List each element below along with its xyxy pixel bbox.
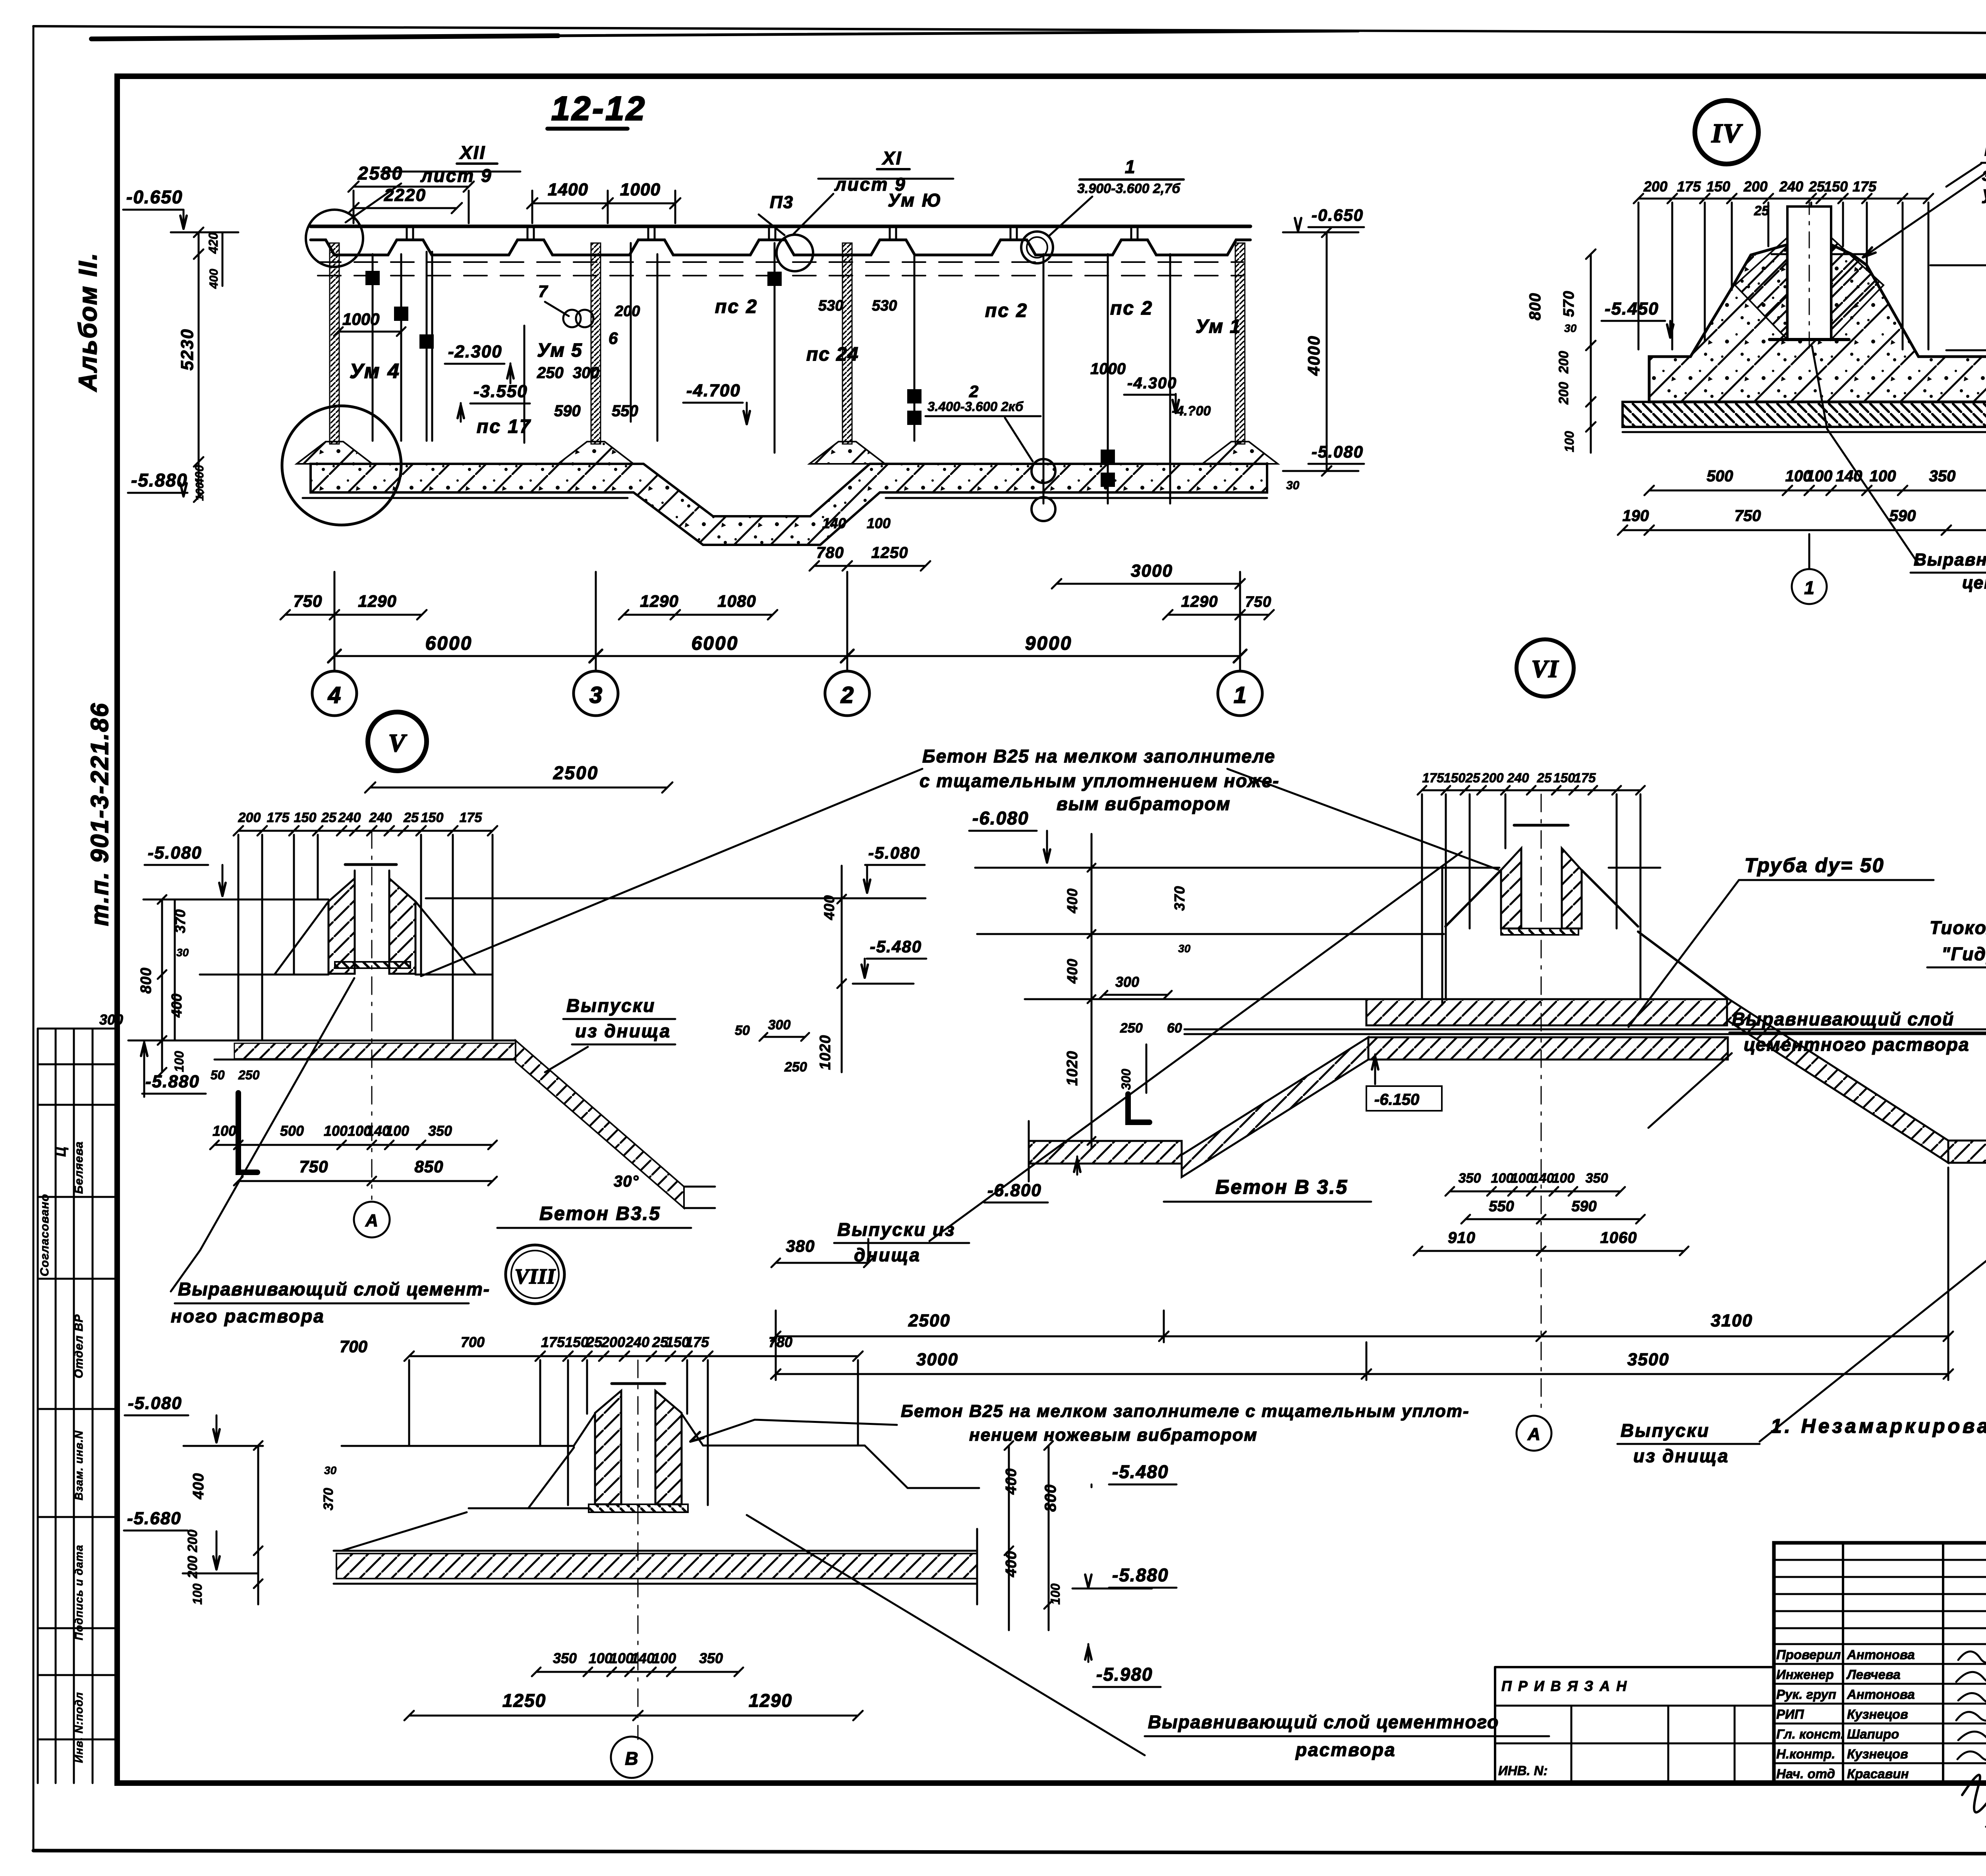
svg-text:-5.080: -5.080 [128, 1393, 182, 1413]
svg-text:300: 300 [99, 1011, 123, 1028]
svg-text:780: 780 [769, 1334, 792, 1350]
svg-text:-0.650: -0.650 [126, 187, 183, 207]
svg-text:150: 150 [1443, 770, 1466, 785]
svg-text:из днища: из днища [575, 1021, 671, 1041]
svg-text:350: 350 [553, 1650, 577, 1666]
svg-text:-6.080: -6.080 [972, 808, 1029, 828]
svg-text:550: 550 [1489, 1198, 1514, 1215]
svg-text:1250: 1250 [502, 1690, 546, 1711]
svg-text:100: 100 [213, 1123, 236, 1139]
svg-text:Красавин: Красавин [1847, 1766, 1909, 1781]
svg-text:-5.680: -5.680 [127, 1509, 182, 1528]
svg-text:уплотнением ножевым вибрато: уплотнением ножевым вибратором. [1982, 183, 1986, 203]
svg-text:25: 25 [586, 1334, 603, 1350]
svg-text:1400: 1400 [548, 180, 588, 199]
svg-text:6000: 6000 [425, 633, 473, 654]
svg-text:50: 50 [735, 1023, 750, 1038]
svg-text:пс 2: пс 2 [715, 296, 758, 317]
svg-text:175: 175 [1574, 770, 1596, 785]
svg-text:370: 370 [321, 1488, 336, 1511]
svg-text:1080: 1080 [717, 592, 756, 610]
svg-text:400: 400 [168, 994, 185, 1018]
svg-text:100: 100 [172, 1051, 186, 1072]
svg-text:60: 60 [1167, 1021, 1182, 1036]
svg-text:100: 100 [1552, 1171, 1575, 1186]
svg-text:175: 175 [685, 1334, 709, 1350]
svg-text:175: 175 [1677, 178, 1701, 195]
svg-text:25: 25 [1808, 178, 1825, 195]
svg-text:500: 500 [1707, 467, 1733, 485]
svg-text:ИНВ. N:: ИНВ. N: [1498, 1763, 1548, 1778]
svg-text:175: 175 [1853, 178, 1877, 195]
svg-text:-5.880: -5.880 [1112, 1565, 1169, 1585]
svg-text:Альбом II.: Альбом II. [73, 252, 102, 392]
svg-text:А: А [1527, 1424, 1540, 1444]
svg-text:25: 25 [1754, 203, 1770, 218]
svg-text:Бетон В25 на мелком: Бетон В25 на мелком [1984, 139, 1986, 160]
svg-text:раствора: раствора [1295, 1739, 1396, 1760]
svg-text:200: 200 [1743, 178, 1768, 195]
svg-text:Антонова: Антонова [1847, 1647, 1915, 1662]
svg-text:2500: 2500 [553, 762, 599, 783]
svg-text:6: 6 [609, 329, 618, 347]
svg-text:Согласовано: Согласовано [38, 1194, 51, 1276]
svg-text:Выравнивающий слой цементног: Выравнивающий слой цементного [1148, 1712, 1499, 1732]
svg-text:590: 590 [1889, 507, 1916, 525]
svg-text:1: 1 [1234, 682, 1246, 708]
svg-text:Выравнивающий слой: Выравнивающий слой [1914, 550, 1986, 569]
svg-text:9000: 9000 [1025, 633, 1072, 654]
svg-text:2220: 2220 [384, 185, 426, 205]
svg-text:Рук. груп: Рук. груп [1776, 1687, 1836, 1702]
svg-text:3000: 3000 [1131, 561, 1173, 581]
svg-text:3: 3 [589, 682, 602, 708]
svg-text:100: 100 [193, 482, 206, 501]
svg-text:750: 750 [1245, 594, 1271, 610]
svg-text:200: 200 [601, 1334, 625, 1350]
svg-text:1250: 1250 [871, 544, 908, 562]
svg-text:Выравнивающий слой: Выравнивающий слой [1732, 1009, 1954, 1029]
svg-text:100: 100 [1491, 1171, 1514, 1186]
svg-text:Гл. конст.: Гл. конст. [1776, 1727, 1844, 1741]
svg-text:Нач. отд: Нач. отд [1776, 1766, 1835, 1781]
svg-text:IV: IV [1711, 118, 1743, 148]
svg-text:240: 240 [1507, 770, 1529, 785]
svg-text:Ум 5: Ум 5 [537, 340, 583, 361]
svg-text:100: 100 [1806, 467, 1833, 485]
svg-text:заполнителе с тщательным: заполнителе с тщательным [1982, 164, 1986, 185]
svg-text:Труба dу= 50: Труба dу= 50 [1745, 854, 1885, 876]
svg-text:1290: 1290 [1181, 593, 1218, 610]
svg-text:300: 300 [573, 364, 599, 382]
svg-text:6000: 6000 [692, 633, 739, 654]
svg-text:200: 200 [185, 1530, 200, 1553]
svg-text:25: 25 [1465, 770, 1480, 785]
svg-text:Ум 4: Ум 4 [350, 360, 400, 383]
svg-text:Ум 1: Ум 1 [1196, 316, 1241, 337]
svg-text:530: 530 [872, 297, 897, 314]
svg-text:30: 30 [1564, 322, 1577, 334]
svg-text:Кузнецов: Кузнецов [1847, 1707, 1908, 1722]
svg-text:750: 750 [1735, 507, 1761, 525]
svg-text:240: 240 [625, 1334, 649, 1350]
svg-text:Кузнецов: Кузнецов [1847, 1747, 1908, 1761]
svg-text:570: 570 [1561, 291, 1577, 317]
svg-text:1290: 1290 [749, 1690, 792, 1711]
svg-text:3100: 3100 [1711, 1311, 1753, 1330]
svg-text:Бетон В 3.5: Бетон В 3.5 [1215, 1176, 1348, 1198]
svg-text:100: 100 [867, 515, 891, 531]
svg-text:т.п. 901-3-221.86: т.п. 901-3-221.86 [86, 702, 114, 926]
svg-text:780: 780 [816, 544, 844, 562]
svg-text:100: 100 [1870, 467, 1896, 485]
svg-text:100: 100 [610, 1650, 634, 1666]
svg-text:-5.080: -5.080 [868, 843, 920, 862]
svg-text:590: 590 [1571, 1198, 1596, 1215]
svg-text:140: 140 [631, 1650, 655, 1666]
svg-text:100: 100 [1048, 1583, 1063, 1605]
svg-text:240: 240 [338, 810, 361, 825]
svg-text:250: 250 [1120, 1021, 1143, 1036]
svg-text:1: 1 [1804, 577, 1814, 598]
svg-text:Отдел ВР: Отдел ВР [72, 1314, 85, 1378]
svg-text:1000: 1000 [1090, 360, 1126, 378]
svg-text:370: 370 [1171, 886, 1188, 911]
svg-text:400: 400 [190, 1473, 207, 1500]
svg-text:200: 200 [1556, 351, 1571, 374]
svg-text:с тщательным уплотнением но: с тщательным уплотнением ноже- [920, 770, 1280, 791]
svg-text:ного раствора: ного раствора [171, 1306, 325, 1326]
svg-text:Шапиро: Шапиро [1847, 1727, 1899, 1741]
svg-text:Ц: Ц [54, 1146, 69, 1157]
svg-text:В: В [625, 1748, 638, 1769]
svg-text:30°: 30° [614, 1173, 639, 1190]
svg-text:1000: 1000 [620, 180, 661, 199]
svg-text:1000: 1000 [342, 310, 379, 328]
svg-text:850: 850 [414, 1157, 443, 1176]
svg-text:-5.080: -5.080 [1312, 442, 1364, 461]
svg-text:-6.800: -6.800 [987, 1181, 1042, 1200]
svg-text:РИП: РИП [1776, 1707, 1804, 1722]
svg-text:30: 30 [324, 1464, 337, 1476]
svg-text:175: 175 [1422, 770, 1444, 785]
svg-text:250: 250 [784, 1060, 807, 1075]
svg-text:200: 200 [185, 1556, 200, 1579]
svg-text:Выпуски: Выпуски [1621, 1420, 1710, 1441]
svg-text:-4.300: -4.300 [1127, 374, 1177, 392]
svg-text:140: 140 [822, 515, 846, 531]
svg-text:12-12: 12-12 [551, 90, 647, 127]
svg-text:7: 7 [538, 282, 548, 301]
svg-text:вым вибратором: вым вибратором [1057, 793, 1231, 814]
svg-text:пс 24: пс 24 [806, 344, 859, 365]
svg-text:-4.?00: -4.?00 [1172, 403, 1211, 419]
svg-text:800: 800 [1526, 293, 1544, 320]
svg-text:100: 100 [589, 1650, 612, 1666]
svg-text:240: 240 [1779, 178, 1803, 195]
svg-text:250: 250 [238, 1068, 260, 1082]
svg-text:Взам. инв.N: Взам. инв.N [73, 1430, 85, 1500]
svg-text:Выпуски из: Выпуски из [837, 1219, 956, 1240]
svg-text:Выпуски: Выпуски [566, 995, 655, 1016]
svg-text:25: 25 [1537, 770, 1552, 785]
svg-text:-3.550: -3.550 [473, 382, 528, 401]
svg-text:530: 530 [818, 297, 843, 314]
svg-text:300: 300 [1119, 1069, 1133, 1090]
svg-text:Тиоколовый герметик: Тиоколовый герметик [1930, 917, 1986, 938]
svg-text:150: 150 [1553, 770, 1575, 785]
svg-text:цементного раствора: цементного раствора [1962, 573, 1986, 593]
svg-text:Антонова: Антонова [1847, 1687, 1915, 1702]
svg-text:2: 2 [969, 382, 978, 401]
svg-text:30: 30 [176, 946, 189, 959]
svg-text:-5.480: -5.480 [870, 937, 922, 956]
svg-text:-2.300: -2.300 [448, 342, 502, 361]
svg-text:3.400-3.600 2кб: 3.400-3.600 2кб [927, 399, 1024, 414]
svg-text:175: 175 [460, 810, 483, 825]
svg-text:350: 350 [699, 1650, 723, 1666]
svg-text:700: 700 [461, 1334, 485, 1350]
svg-text:-5.080: -5.080 [148, 843, 202, 863]
svg-text:Левчева: Левчева [1846, 1667, 1901, 1682]
svg-text:150: 150 [1706, 178, 1730, 195]
svg-text:Беляева: Беляева [72, 1141, 85, 1194]
svg-text:800: 800 [1042, 1484, 1059, 1512]
svg-text:420: 420 [206, 232, 220, 254]
svg-text:Бетон В25 на мелком заполн: Бетон В25 на мелком заполнителе с тщател… [901, 1401, 1470, 1421]
svg-text:400: 400 [1064, 958, 1080, 984]
svg-text:750: 750 [299, 1157, 328, 1176]
svg-text:цементного раствора: цементного раствора [1744, 1034, 1970, 1055]
svg-text:700: 700 [340, 1337, 367, 1356]
svg-text:-5.480: -5.480 [1112, 1461, 1169, 1482]
svg-text:550: 550 [612, 402, 638, 420]
svg-text:400: 400 [207, 269, 220, 289]
svg-text:днища: днища [854, 1245, 921, 1265]
svg-text:175: 175 [541, 1334, 565, 1350]
svg-text:XII: XII [459, 142, 486, 163]
svg-text:200: 200 [238, 810, 261, 825]
svg-text:25: 25 [321, 810, 337, 825]
svg-text:240: 240 [369, 810, 392, 825]
svg-text:2580: 2580 [357, 163, 403, 183]
svg-text:150: 150 [1824, 178, 1848, 195]
svg-text:1290: 1290 [358, 592, 396, 610]
svg-text:50: 50 [211, 1068, 225, 1082]
svg-text:-6.150: -6.150 [1374, 1091, 1419, 1108]
svg-text:400: 400 [193, 465, 206, 485]
svg-text:30: 30 [1286, 479, 1300, 492]
svg-text:100: 100 [385, 1123, 409, 1139]
svg-text:100: 100 [190, 1583, 205, 1605]
svg-text:400: 400 [1064, 888, 1080, 913]
svg-text:25: 25 [403, 810, 419, 825]
svg-text:Инв. N:подл: Инв. N:подл [73, 1692, 85, 1763]
svg-text:400: 400 [1003, 1551, 1020, 1577]
svg-text:1060: 1060 [1600, 1229, 1637, 1247]
svg-text:400: 400 [821, 895, 837, 920]
svg-text:3000: 3000 [916, 1350, 958, 1369]
svg-text:30: 30 [1178, 942, 1191, 955]
svg-text:5230: 5230 [178, 328, 197, 371]
svg-text:910: 910 [1448, 1229, 1476, 1247]
svg-text:1020: 1020 [817, 1035, 834, 1070]
svg-text:лист 9: лист 9 [420, 165, 493, 186]
svg-text:4000: 4000 [1304, 335, 1323, 376]
svg-text:400: 400 [1003, 1468, 1020, 1495]
svg-text:150: 150 [294, 810, 317, 825]
svg-text:-5.980: -5.980 [1096, 1664, 1153, 1685]
svg-text:250: 250 [537, 364, 564, 382]
svg-text:350: 350 [1586, 1171, 1608, 1186]
svg-text:200: 200 [1481, 770, 1504, 785]
svg-text:175: 175 [267, 810, 290, 825]
svg-text:200: 200 [1643, 178, 1667, 195]
svg-text:300: 300 [768, 1017, 791, 1033]
svg-text:3500: 3500 [1627, 1350, 1669, 1369]
svg-text:350: 350 [1459, 1171, 1481, 1186]
svg-text:-0.650: -0.650 [1312, 206, 1364, 224]
svg-text:750: 750 [293, 592, 322, 610]
svg-text:200: 200 [1556, 382, 1571, 405]
svg-text:4: 4 [328, 682, 341, 708]
svg-text:V: V [388, 729, 408, 757]
svg-text:1290: 1290 [640, 592, 678, 610]
svg-text:Ум Ю: Ум Ю [888, 190, 942, 210]
svg-text:Инженер: Инженер [1776, 1667, 1834, 1682]
svg-text:190: 190 [1623, 507, 1649, 525]
svg-text:-5.450: -5.450 [1605, 299, 1659, 318]
svg-text:-4.700: -4.700 [686, 381, 741, 400]
svg-text:-5.880: -5.880 [131, 470, 187, 490]
svg-text:П3: П3 [770, 193, 794, 212]
svg-text:350: 350 [1929, 467, 1956, 485]
svg-text:500: 500 [280, 1123, 304, 1139]
svg-text:VI: VI [1531, 656, 1559, 683]
svg-text:350: 350 [428, 1123, 452, 1139]
svg-text:1. Незамаркированные плиты: 1. Незамаркированные плиты П1. [1771, 1415, 1986, 1437]
svg-text:100: 100 [324, 1123, 348, 1139]
svg-text:100: 100 [652, 1650, 676, 1666]
svg-text:XI: XI [881, 148, 902, 168]
svg-text:800: 800 [138, 967, 155, 994]
svg-text:"Гидром - 2" или Ам. 0.5: "Гидром - 2" или Ам. 0.5 [1942, 944, 1986, 964]
svg-text:Бетон В3.5: Бетон В3.5 [539, 1203, 661, 1224]
svg-text:Подпись и дата: Подпись и дата [73, 1545, 85, 1641]
svg-text:из днища: из днища [1633, 1446, 1729, 1466]
svg-text:пс 2: пс 2 [1110, 298, 1153, 319]
svg-text:Бетон В25 на мелком заполн: Бетон В25 на мелком заполнителе [922, 746, 1275, 766]
svg-text:Проверил: Проверил [1776, 1647, 1841, 1662]
svg-text:300: 300 [1115, 974, 1139, 990]
svg-text:100: 100 [1511, 1171, 1534, 1186]
svg-text:пс 17: пс 17 [477, 416, 531, 437]
svg-text:-5.880: -5.880 [145, 1072, 200, 1091]
svg-text:Выравнивающий слой цемент-: Выравнивающий слой цемент- [178, 1279, 490, 1299]
svg-text:150: 150 [565, 1334, 589, 1350]
svg-text:VIII: VIII [514, 1264, 556, 1288]
svg-text:590: 590 [554, 402, 581, 420]
svg-text:пс 2: пс 2 [985, 300, 1028, 321]
svg-text:200: 200 [614, 303, 640, 320]
svg-text:А: А [365, 1211, 378, 1230]
svg-text:100: 100 [1562, 431, 1576, 452]
svg-text:нением ножевым вибратором: нением ножевым вибратором [969, 1425, 1258, 1445]
svg-text:Н.контр.: Н.контр. [1776, 1747, 1835, 1761]
svg-text:П Р И В Я З А Н: П Р И В Я З А Н [1501, 1678, 1628, 1694]
svg-text:1: 1 [1125, 156, 1135, 177]
svg-text:2500: 2500 [908, 1311, 950, 1330]
svg-text:150: 150 [421, 810, 444, 825]
svg-text:380: 380 [786, 1237, 815, 1255]
svg-text:1020: 1020 [1064, 1051, 1081, 1086]
svg-text:3.900-3.600 2,7б: 3.900-3.600 2,7б [1077, 181, 1180, 196]
svg-text:140: 140 [1532, 1171, 1554, 1186]
svg-text:2: 2 [840, 682, 854, 708]
